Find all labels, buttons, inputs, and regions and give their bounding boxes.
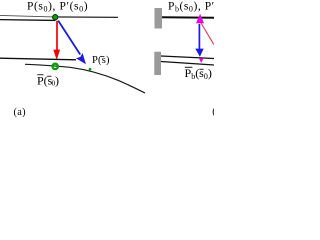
- wire bottom curve Pbar: [25, 64, 145, 93]
- svg-text:Pb(s0), P′: Pb(s0), P′: [168, 0, 214, 13]
- red arrow projection: [53, 21, 60, 60]
- wire upper boundary line b: [162, 16, 214, 19]
- wire tangent line lower: [0, 19, 56, 22]
- label Pbar_b(sbar0) bottom right: [185, 66, 212, 81]
- node P(s0) green dot: [53, 15, 58, 20]
- wire lower boundary line B: [161, 62, 214, 66]
- svg-text:(b): (b): [212, 107, 214, 118]
- svg-text:Pb(s0): Pb(s0): [185, 66, 212, 81]
- node Pbar(sbar0) green ring: [53, 64, 58, 69]
- label P(s0), P'(s0): [27, 0, 88, 13]
- label Pb(s0), P'( top right: [168, 0, 215, 13]
- magenta down triangle Pbar_b: [199, 58, 204, 63]
- wire lower boundary line A: [161, 56, 214, 59]
- red thin diagonal line: [201, 23, 214, 45]
- blue arrow projection: [58, 21, 86, 65]
- svg-text:P(s0), P′(s0): P(s0), P′(s0): [27, 0, 88, 13]
- wire curve P upper line: [0, 15, 53, 17]
- svg-text:P(s: P(s: [37, 73, 53, 87]
- wire bottom tangent line: [0, 58, 76, 60]
- wall upper gray rect: [155, 8, 163, 29]
- svg-text:(a): (a): [14, 107, 26, 118]
- blue arrow down fig b: [195, 24, 203, 57]
- magenta up arrowhead Pb(s0): [196, 14, 204, 23]
- label Pbar(sbar0): [37, 73, 59, 87]
- node on curve small green dot: [89, 68, 92, 71]
- label P(sbar) on curve: [92, 55, 110, 66]
- wall lower gray rect: [154, 52, 161, 75]
- svg-text:): ): [55, 73, 59, 87]
